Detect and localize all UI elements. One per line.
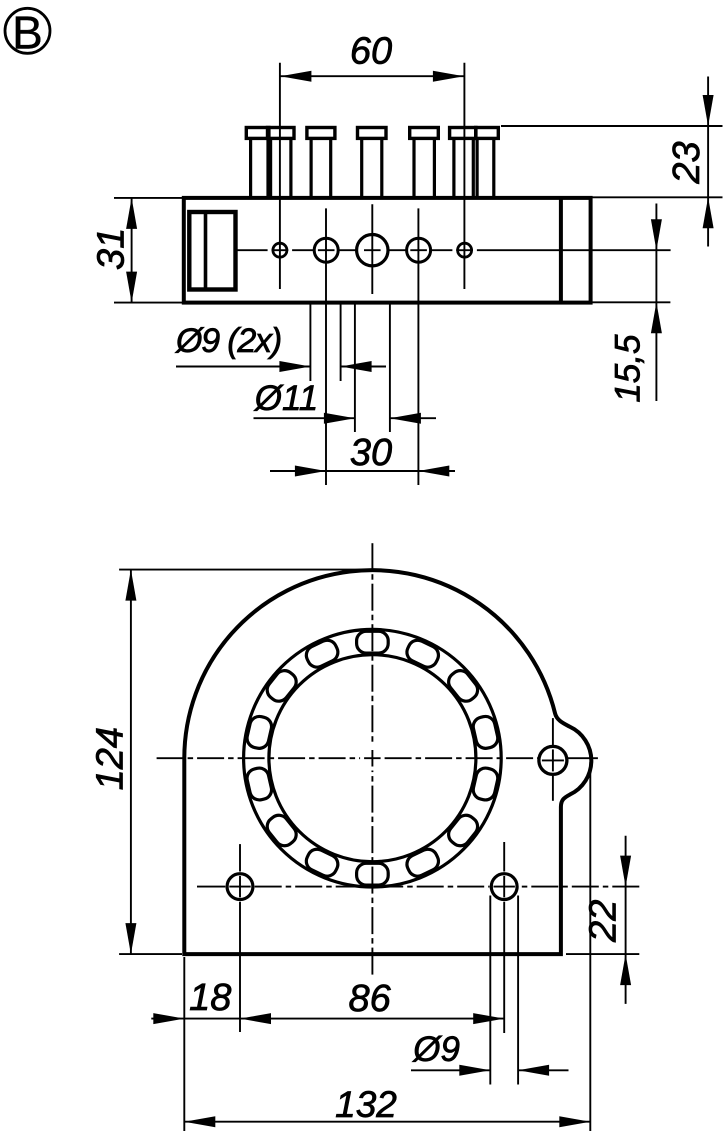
bottom left hole center cross (229, 886, 250, 888)
extension line through c1 (60 dim left) (279, 63, 281, 289)
dimension 23 line (707, 77, 709, 247)
bearing bore circle (269, 655, 476, 862)
dimension 15,5 upper arrow (651, 219, 662, 250)
dimension 18/86 line (184, 1018, 504, 1020)
svg-text:15,5: 15,5 (608, 334, 647, 403)
extension line Ø9 left edge (489, 896, 491, 1085)
dimension Ø11 left arrow (390, 413, 421, 424)
dimension 31 bottom arrow (126, 272, 137, 303)
centerline tick c2 (318, 249, 335, 251)
dimension 15,5 ext bottom (593, 301, 671, 303)
hole circle left Ø9 (c1) (273, 243, 287, 257)
svg-text:23: 23 (666, 141, 708, 184)
dimension 132 line (184, 1121, 590, 1123)
counterbore circle c2 (314, 238, 338, 262)
pin P3 (left middle roller) (307, 128, 335, 198)
dimension 60 left arrow (280, 71, 311, 82)
dimension 18/86 tail left (151, 1018, 184, 1020)
dimension 23 lower arrow (703, 197, 714, 228)
dimension 31 ext bottom (114, 302, 182, 304)
svg-text:60: 60 (350, 31, 392, 73)
dimension Ø11 right arrow (324, 413, 355, 424)
dimension 124 line (130, 570, 132, 955)
extension line c3 right edge (389, 303, 391, 432)
top view horizontal centerline (237, 249, 267, 251)
dimension Ø9 right arrow (459, 1065, 490, 1076)
top view body outline (184, 198, 591, 303)
dimension 124 ext bottom (119, 953, 182, 955)
svg-text:30: 30 (350, 432, 392, 474)
dimension 31 ext top (114, 197, 182, 199)
dimension 30 right arrow (418, 466, 449, 477)
dimension 86 left arrow (240, 1013, 271, 1024)
dimension 30 right tail (418, 470, 455, 472)
centerline tick c3 (364, 249, 381, 251)
svg-text:Ø11: Ø11 (254, 379, 319, 418)
dimension 18 left arrow (153, 1013, 184, 1024)
dimension Ø9 left arrow (518, 1065, 549, 1076)
extension line Ø9 right edge (517, 896, 519, 1085)
extension line bulge extreme (589, 762, 591, 1131)
extension line c2 left edge (309, 303, 311, 381)
counterbore circle c4 (407, 238, 431, 262)
svg-text:124: 124 (89, 727, 131, 790)
extension line c2 right edge (340, 303, 342, 381)
centerline tick c5 (456, 249, 473, 251)
dimension Ø11 leader line (254, 417, 355, 419)
dimension Ø11 arrow tail (390, 417, 436, 419)
dimension 86 right arrow (473, 1013, 504, 1024)
right flange hole circle (539, 746, 567, 774)
extension line through c4 (30 dim right) (417, 208, 419, 485)
bottom right hole center cross (494, 886, 515, 888)
extension line bottom left hole to 18/86 dim (239, 902, 241, 1032)
pin D (right outer roller) (476, 128, 499, 198)
dimension 132 right arrow (559, 1116, 590, 1127)
bearing horizontal centerline (157, 757, 184, 759)
svg-text:22: 22 (583, 900, 625, 943)
svg-text:132: 132 (335, 1084, 397, 1125)
extension line through c5 (60 dim right) (463, 63, 465, 289)
dimension 30 left arrow (295, 466, 326, 477)
hole circle right Ø9 (c5) (458, 243, 472, 257)
dimension Ø9 (2x) leader line (176, 366, 310, 368)
slot divider line (204, 212, 208, 290)
bottom left hole circle (227, 874, 253, 900)
svg-text:Ø9 (2x): Ø9 (2x) (175, 322, 281, 360)
svg-text:18: 18 (189, 977, 231, 1019)
dimension 132 left arrow (184, 1116, 215, 1127)
right flange hole center cross (542, 759, 564, 761)
dimension 23 ext bottom (body top level) (593, 196, 723, 198)
centerline through c3 (371, 204, 373, 294)
centerline tick c1 (272, 249, 289, 251)
extension line plate left corner (183, 957, 185, 1131)
plate outline with right bulge (184, 570, 591, 954)
dimension 124 top arrow (125, 570, 136, 601)
view label B circle (5, 8, 50, 53)
dimension 23 ext top (cap level) (501, 125, 723, 127)
bottom right hole vertical centerline upper (503, 842, 505, 872)
dimension 124 ext top (119, 569, 376, 571)
dimension 22 upper arrow (620, 856, 631, 887)
dimension 31 top arrow (126, 198, 137, 229)
dimension 31 line (131, 198, 133, 303)
dimension 15,5 lower arrow (651, 302, 662, 333)
dimension 30 line (326, 470, 418, 472)
dimension 60 line (280, 75, 464, 77)
bottom left hole vertical centerline upper (239, 844, 241, 871)
dimension 124 bottom arrow (125, 923, 136, 954)
pin B (left inner roller) (268, 128, 295, 198)
center hole circle c3 Ø11 (357, 235, 388, 266)
dimension 60 right arrow (433, 71, 464, 82)
pin P4 (center roller) (358, 128, 387, 198)
svg-text:Ø9: Ø9 (412, 1030, 460, 1069)
dimension 23 upper arrow (703, 95, 714, 126)
bearing outer ring circle (244, 629, 502, 887)
svg-text:86: 86 (348, 978, 391, 1020)
dimension 22 ext bottom (566, 953, 639, 955)
dimension 22 line (625, 836, 627, 1004)
bearing rollers (14 rounded elements) (245, 631, 499, 885)
dimension 15,5 line (655, 204, 657, 402)
pin P5 (right middle roller) (410, 128, 439, 198)
bottom holes horizontal centerline (197, 886, 225, 888)
extension line c3 left edge (354, 303, 356, 432)
svg-text:B: B (12, 7, 43, 59)
extension line through c2 (30 dim left) (325, 208, 327, 485)
dimension Ø9 (2x) arrow tail (341, 366, 386, 368)
extension line bottom right hole to 86 dim (503, 902, 505, 1033)
slot outer rectangle (189, 212, 235, 290)
dimension Ø9 leader line (411, 1069, 490, 1071)
dimension Ø9 (2x) right arrow (279, 361, 310, 372)
dimension Ø9 (2x) left arrow (341, 361, 372, 372)
dimension Ø9 arrow tail (518, 1069, 568, 1071)
pin A (left outer roller) (246, 128, 269, 198)
pin C (right inner roller) (450, 128, 476, 198)
bottom view vertical centerline (371, 543, 373, 570)
top view body end step line (559, 198, 563, 303)
bottom right hole circle (491, 874, 517, 900)
centerline tick c4 (410, 249, 427, 251)
right flange hole vertical centerline (552, 718, 554, 745)
dimension 22 lower arrow (620, 954, 631, 985)
svg-text:31: 31 (91, 228, 133, 270)
dimension 30 left tail (270, 470, 326, 472)
